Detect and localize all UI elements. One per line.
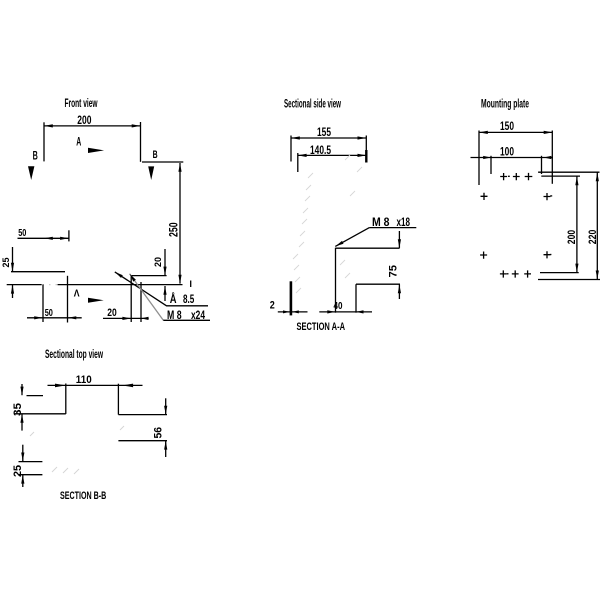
svg-text:SECTION A-A: SECTION A-A bbox=[297, 321, 346, 333]
arrow bottom of dim 250 bbox=[178, 275, 181, 284]
value 25 rotated topview bbox=[12, 465, 24, 477]
svg-text:Λ: Λ bbox=[74, 287, 80, 299]
arrow left of dim 20 bottom bbox=[122, 317, 131, 320]
baseline left segment bbox=[7, 284, 42, 286]
boss vertical edge x335.5 bbox=[335, 248, 337, 313]
arrow left of dim 2 bbox=[283, 310, 290, 313]
value 220 rotated bbox=[587, 230, 599, 245]
arrow right of dim 50 bottom bbox=[68, 316, 77, 319]
arrow right of dim 50 top bbox=[60, 237, 69, 240]
hole row reference y176.1 bbox=[541, 175, 580, 177]
hatching side view bbox=[293, 155, 362, 293]
arrow top of dim 250 bbox=[178, 163, 181, 172]
svg-text:20: 20 bbox=[107, 307, 117, 319]
hole cross markers bbox=[480, 173, 552, 278]
svg-text:Mounting plate: Mounting plate bbox=[481, 99, 529, 111]
svg-text:B: B bbox=[153, 149, 158, 161]
svg-text:25: 25 bbox=[1, 257, 12, 268]
hole marker top 2 bbox=[513, 173, 520, 180]
dim line 150 bbox=[479, 131, 553, 133]
section arrow B left bbox=[28, 166, 34, 180]
centre dash right upper bbox=[550, 195, 552, 197]
extension line x291 bbox=[290, 136, 292, 162]
inner wall x118.4 bbox=[117, 384, 119, 415]
value 35 rotated bbox=[12, 403, 24, 416]
svg-text:40: 40 bbox=[334, 300, 343, 312]
step edge y275.6 bbox=[131, 275, 166, 277]
svg-text:20: 20 bbox=[153, 257, 164, 267]
dim line 20 bottom bbox=[103, 317, 149, 319]
arrow right of dim 20 bottom bbox=[141, 317, 149, 320]
hole line x141 bbox=[140, 282, 142, 322]
extension line x491 bbox=[490, 156, 492, 174]
extension line x43 below baseline bbox=[42, 285, 44, 323]
svg-text:155: 155 bbox=[317, 125, 331, 139]
extension line x479 bbox=[478, 131, 480, 186]
svg-text:50: 50 bbox=[45, 307, 53, 319]
dim line 250 vertical bbox=[179, 163, 181, 284]
inner bottom edge y440.7 bbox=[118, 440, 167, 442]
plate bottom reference y279.5 bbox=[538, 279, 600, 281]
svg-text:200: 200 bbox=[566, 230, 578, 244]
bottom wall lower edge y474.7 bbox=[19, 474, 43, 476]
dim line 100 bbox=[471, 157, 554, 159]
outer edge y414.6 right bbox=[118, 414, 167, 416]
svg-text:140.5: 140.5 bbox=[310, 143, 331, 157]
arrow right of dim 40 bbox=[356, 310, 364, 313]
value 25 rotated bbox=[1, 257, 12, 268]
extension line x297.8 bbox=[297, 153, 299, 172]
arrow top of dim 200 bbox=[575, 176, 578, 185]
dim line 50 bottom bbox=[27, 317, 82, 319]
svg-text:250: 250 bbox=[167, 222, 181, 237]
arrow right of dim 155 bbox=[358, 136, 367, 139]
dim line 2 bbox=[278, 311, 308, 313]
dim line 200 vertical bbox=[576, 176, 578, 272]
leader underline M8 x18 bbox=[369, 227, 416, 229]
hole marker bottom 3 bbox=[524, 270, 531, 277]
centre dash bottom bbox=[507, 273, 509, 275]
arrow right of dim 140.5 bbox=[358, 154, 367, 157]
shoulder line y162 bbox=[142, 161, 183, 163]
svg-text:x24: x24 bbox=[191, 310, 205, 322]
extension line x366.3 bbox=[365, 136, 367, 151]
extension tick x68.9 bbox=[68, 230, 70, 241]
leader for hole 8.5 bbox=[115, 272, 208, 306]
arrow left of dim 200 bbox=[44, 124, 53, 127]
value 75 rotated bbox=[387, 265, 399, 278]
plate top reference y172.2 bbox=[538, 171, 599, 173]
dim 25 upper segment with down arrow bbox=[12, 247, 14, 271]
hole marker left lower bbox=[480, 252, 487, 259]
svg-text:M 8: M 8 bbox=[167, 310, 182, 322]
svg-text:50: 50 bbox=[18, 227, 26, 239]
arrow top of dim 220 bbox=[596, 172, 599, 181]
svg-text:Sectional top view: Sectional top view bbox=[45, 349, 103, 361]
leader for thread M8 x24 bbox=[130, 274, 164, 321]
centre dash top bbox=[508, 175, 510, 177]
step edge y284.2 bbox=[356, 283, 400, 285]
centre dot right lower bbox=[550, 254, 552, 256]
dim line 50 top bbox=[18, 237, 69, 239]
arrow right of dim 200 bbox=[132, 124, 141, 127]
back plate section thick x290.9 bbox=[290, 281, 293, 315]
inner wall x65.8 bbox=[65, 384, 67, 414]
bottom hole row reference y272.6 bbox=[540, 272, 579, 274]
arrow bottom of dim 220 bbox=[596, 271, 599, 280]
bottom wall top edge y461.6 bbox=[19, 461, 43, 463]
hatching top view bbox=[30, 426, 124, 474]
value 20 rotated bbox=[153, 257, 164, 267]
arrow left of dim 100 bbox=[483, 156, 491, 159]
svg-text:200: 200 bbox=[77, 113, 91, 127]
baseline faint middle bbox=[43, 284, 58, 286]
svg-text:B: B bbox=[33, 149, 38, 163]
hole marker right upper bbox=[544, 193, 551, 200]
arrow right of dim 100 bbox=[544, 156, 552, 159]
svg-text:x18: x18 bbox=[397, 217, 411, 229]
hole marker bottom 1 bbox=[500, 270, 507, 277]
hole marker left upper bbox=[481, 193, 488, 200]
extension line x541.5 bbox=[541, 156, 543, 174]
svg-text:SECTION B-B: SECTION B-B bbox=[60, 490, 106, 502]
view arrow A top bbox=[88, 148, 104, 153]
dim 25 upper segment with down arrow bbox=[22, 445, 24, 462]
svg-text:35: 35 bbox=[12, 403, 24, 416]
dim 75 lower segment with up arrow bbox=[398, 285, 400, 300]
arrow left of dim 150 bbox=[479, 131, 488, 134]
svg-text:25: 25 bbox=[12, 465, 24, 477]
wall inner edge y395.6 bbox=[27, 395, 44, 397]
arrow bottom of dim 200 bbox=[575, 264, 578, 273]
extension line left x44 bbox=[43, 122, 45, 161]
svg-text:100: 100 bbox=[500, 145, 514, 159]
svg-text:150: 150 bbox=[500, 119, 514, 133]
hole marker top 3 bbox=[525, 173, 533, 180]
dim 35 upper segment with down arrow bbox=[21, 384, 23, 395]
dim line 200 bbox=[44, 125, 141, 127]
boss top edge y248.2 bbox=[336, 247, 400, 249]
dim 25 lower segment with up arrow bbox=[12, 285, 14, 298]
value 56 rotated bbox=[153, 427, 165, 439]
svg-text:Sectional side view: Sectional side view bbox=[284, 99, 341, 111]
svg-text:2: 2 bbox=[270, 300, 275, 312]
svg-text:Å: Å bbox=[170, 293, 177, 306]
arrow right of dim 150 bbox=[544, 131, 553, 134]
baseline main segment bbox=[58, 284, 183, 286]
dim 20 vertical upper segment bbox=[164, 249, 166, 275]
svg-text:110: 110 bbox=[76, 374, 92, 386]
arrow left of dim 50 top bbox=[44, 237, 53, 240]
dim line 155 bbox=[291, 137, 366, 139]
leader diagonal M8 x18 bbox=[335, 228, 369, 247]
step vertical x356 bbox=[355, 284, 357, 313]
plate right edge thick bbox=[365, 150, 367, 163]
dim 35 lower segment with up arrow bbox=[21, 414, 23, 431]
hole marker top 1 bbox=[500, 173, 507, 180]
svg-text:56: 56 bbox=[153, 427, 165, 439]
extension line x552.3 bbox=[551, 131, 553, 184]
dim 56 lower segment with up arrow bbox=[165, 441, 167, 457]
arrow left of dim 140.5 bbox=[298, 154, 307, 157]
svg-text:Front view: Front view bbox=[65, 98, 98, 110]
end tick x190.7 bbox=[190, 281, 192, 288]
arrow left of dim 50 bottom bbox=[34, 316, 43, 319]
arrow left of dim 40 bbox=[327, 310, 335, 313]
extension line right x140.5 bbox=[140, 122, 142, 162]
svg-text:8.5: 8.5 bbox=[183, 294, 195, 306]
hole marker right lower bbox=[544, 251, 551, 258]
value 200 rotated bbox=[566, 230, 578, 244]
dim line 40 bbox=[319, 311, 372, 313]
dim 25 lower segment with up arrow bbox=[22, 475, 24, 487]
svg-text:220: 220 bbox=[587, 230, 599, 245]
svg-text:A: A bbox=[76, 136, 81, 148]
arrow left of dim 110 bbox=[55, 384, 66, 388]
dim 20 vertical lower segment bbox=[164, 286, 166, 301]
svg-text:75: 75 bbox=[387, 265, 399, 278]
hole marker bottom 2 bbox=[512, 270, 519, 277]
dim 75 upper segment with down arrow bbox=[398, 231, 400, 248]
arrow left of dim 155 bbox=[291, 136, 300, 139]
dim line 110 bbox=[48, 384, 143, 386]
extension line x67.5 bbox=[67, 276, 69, 323]
view arrow A bottom bbox=[88, 298, 104, 303]
hole line x131.2 bbox=[130, 276, 132, 323]
value 250 rotated bbox=[167, 222, 181, 237]
svg-text:M 8: M 8 bbox=[372, 217, 390, 229]
arrow right of dim 2 bbox=[292, 310, 299, 313]
outer edge y413.8 left bbox=[15, 413, 66, 415]
arrow right of dim 110 bbox=[122, 384, 133, 388]
dim line 220 vertical bbox=[596, 172, 598, 279]
section arrow B right bbox=[148, 166, 154, 180]
dim line 140.5 bbox=[298, 154, 367, 156]
dim 56 upper segment with down arrow bbox=[165, 398, 167, 414]
flange top edge y271.7 bbox=[11, 271, 65, 273]
